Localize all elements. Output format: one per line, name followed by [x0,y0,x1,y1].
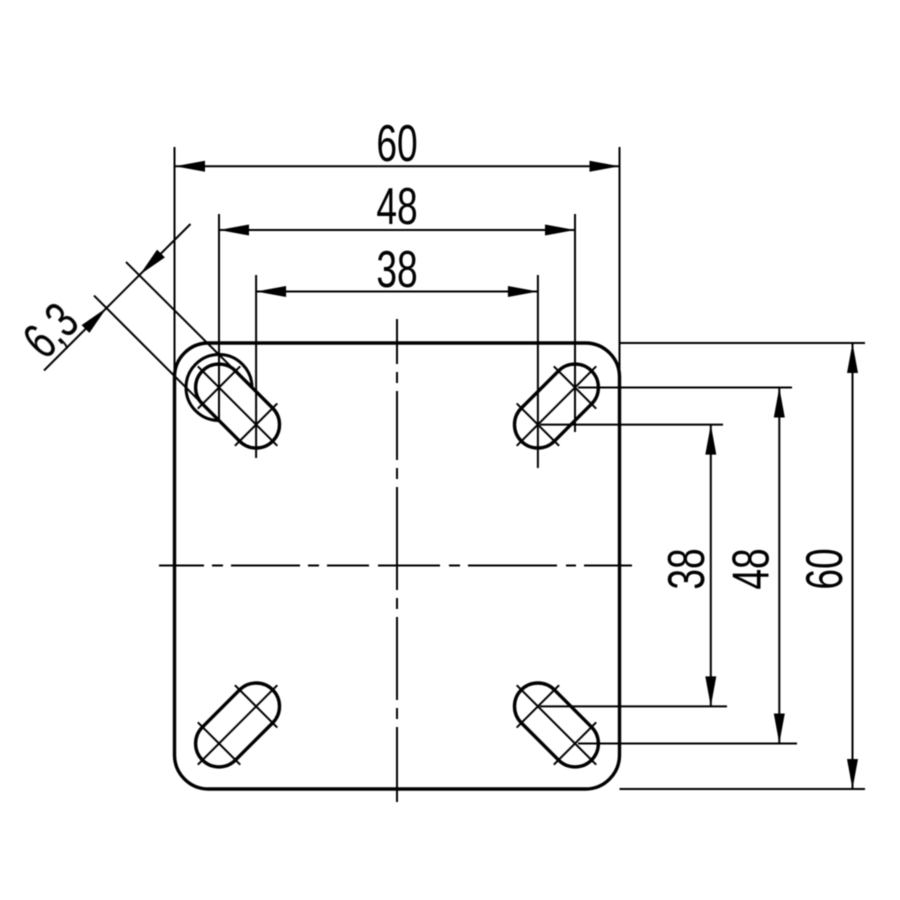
svg-text:48: 48 [721,548,780,589]
svg-text:60: 60 [376,114,417,173]
svg-text:48: 48 [376,177,417,236]
svg-text:38: 38 [657,548,716,589]
svg-text:38: 38 [376,240,417,299]
svg-text:60: 60 [795,548,854,589]
